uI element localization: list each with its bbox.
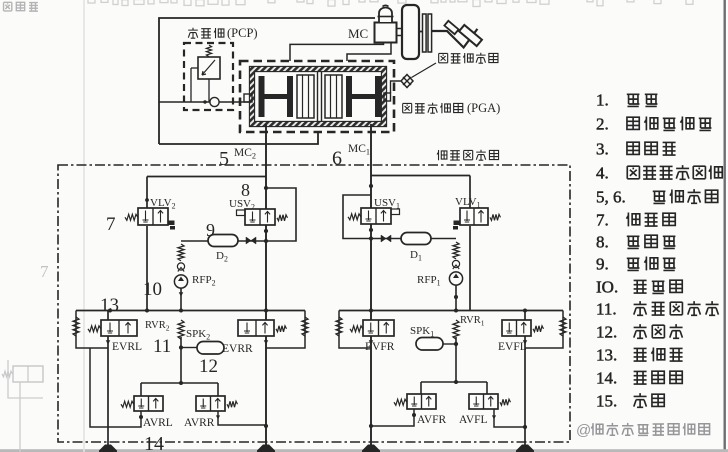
- svg-text:AVRR: AVRR: [184, 417, 215, 429]
- scan artifact: faint fold line: [83, 0, 85, 452]
- svg-text:15.: 15.: [596, 392, 617, 411]
- svg-text:13: 13: [100, 295, 119, 316]
- pedal plates: [423, 14, 427, 52]
- return check RVR2 on return line: [178, 320, 184, 339]
- hydraulic modulator enclosure (dash-dot): [58, 165, 570, 442]
- accumulator SPK1: [443, 343, 456, 345]
- wire: VLV1 to lower rail: [469, 226, 471, 311]
- PGA piston 1 (left): [259, 76, 265, 117]
- PGA chamber springs (left): [297, 75, 314, 118]
- pedal pad small: [444, 21, 458, 34]
- pedal pad: [459, 25, 482, 46]
- wire: damper line: [181, 240, 266, 242]
- svg-text:12: 12: [199, 356, 218, 377]
- svg-text:MC: MC: [348, 26, 368, 41]
- svg-text:10: 10: [143, 279, 162, 300]
- PGA chamber springs (right): [325, 75, 342, 118]
- svg-text:(PCP): (PCP): [227, 26, 258, 40]
- pressure increase valve EVFL: [524, 311, 526, 452]
- EVRL bypass loop with check spring: [76, 311, 108, 349]
- svg-text:AVRL: AVRL: [143, 417, 173, 429]
- EVFL bypass loop: [525, 311, 563, 349]
- PGA right outlet port: [384, 93, 391, 101]
- wheel cylinder RR (15, cut off): [257, 445, 275, 452]
- svg-text:AVFL: AVFL: [459, 414, 488, 426]
- wire: MC to PGA port A: [290, 43, 384, 62]
- svg-text:14: 14: [144, 433, 164, 452]
- suction valve VLV1: [453, 208, 501, 230]
- svg-text:AVFR: AVFR: [417, 414, 447, 426]
- wire: right lower rail: [339, 310, 563, 312]
- svg-text:1.: 1.: [596, 91, 609, 110]
- svg-text:6: 6: [332, 148, 342, 170]
- pressure increase valve EVRL: [107, 311, 109, 452]
- PGA left inlet port: [244, 94, 252, 102]
- pump RFP2: [174, 275, 187, 288]
- relief valve inside PCP: [198, 57, 220, 79]
- MC push rod: [397, 29, 403, 36]
- PGA piston 2 (right): [346, 76, 352, 117]
- svg-text:EVRR: EVRR: [222, 343, 253, 355]
- scan artifact: right page edge: [724, 0, 726, 452]
- MC reservoir cap: [379, 8, 392, 22]
- label: 压力生成器 (PGA): [403, 103, 412, 112]
- scan artifact: bottom page edge: [0, 449, 728, 452]
- wire: PCP internal loop: [191, 67, 198, 69]
- svg-text:9: 9: [206, 220, 215, 240]
- label: 压力传感器 with pointer: [412, 63, 437, 78]
- wheel cylinder FR (15, cut off): [362, 445, 380, 452]
- wire: AVFR drain: [371, 409, 414, 426]
- svg-text:EVFR: EVFR: [365, 341, 395, 353]
- svg-text:EVRL: EVRL: [112, 341, 142, 353]
- wire: outer unit box bottom: [159, 131, 318, 144]
- svg-text:(PGA): (PGA): [467, 101, 500, 115]
- pump circle PCP: [210, 97, 219, 106]
- pre-pressure pump PCP enclosure (dashed): [184, 43, 233, 110]
- svg-text:7: 7: [40, 262, 49, 281]
- wire: left top rail: [147, 176, 266, 178]
- wire: damper line right: [371, 238, 456, 240]
- EVFR bypass loop: [339, 311, 371, 349]
- wire: right top rail: [371, 175, 470, 177]
- scan artifact: ghost text top-left: [4, 2, 12, 11]
- wire: PCP suction line: [159, 101, 252, 103]
- pressure generator PGA enclosure (dashed): [240, 61, 394, 132]
- damper D2: [208, 235, 238, 247]
- wire: outer unit box top/left: [159, 18, 375, 144]
- wire: VLV2 to lower rail: [146, 226, 148, 311]
- svg-text:14.: 14.: [596, 369, 617, 388]
- svg-text:7: 7: [106, 214, 116, 235]
- svg-text:8.: 8.: [596, 233, 609, 252]
- svg-text:IO.: IO.: [596, 278, 618, 297]
- pressure sensor symbol: [391, 81, 401, 93]
- svg-text:2.: 2.: [596, 115, 609, 134]
- check valve (bowtie) on damper line: [246, 237, 256, 244]
- wire: USV2 bypass loop: [266, 188, 296, 241]
- wire: AV bracket right: [421, 381, 487, 383]
- pressure reduce valve AVFR: [394, 394, 436, 409]
- svg-text:11.: 11.: [596, 300, 617, 319]
- wire: AVRL drain: [90, 348, 141, 427]
- master cylinder MC body: [375, 23, 397, 43]
- svg-text:@: @: [576, 422, 591, 439]
- svg-text:4.: 4.: [596, 164, 609, 183]
- wire: VLV2 drop: [146, 177, 148, 209]
- svg-text:3.: 3.: [596, 140, 609, 159]
- pressure increase valve EVRR: [238, 320, 287, 336]
- svg-text:5, 6.: 5, 6.: [596, 188, 626, 207]
- pump RFP1: [449, 272, 462, 285]
- node MC1 main line: [370, 124, 372, 452]
- svg-text:8: 8: [241, 180, 250, 200]
- wire: AVFL drain: [494, 409, 525, 427]
- wire: VLV1 drop: [469, 176, 471, 209]
- wire: AV bracket left: [141, 382, 218, 384]
- return pump branch: spring + check + pump RFP2: [178, 244, 184, 261]
- wheel cylinder FL (15, cut off): [516, 445, 534, 452]
- wire: USV1 bypass loop: [343, 195, 371, 239]
- brake pedal arm: [432, 29, 478, 48]
- legend list: [596, 91, 722, 411]
- svg-text:9.: 9.: [596, 255, 609, 274]
- booster disc: [402, 5, 419, 59]
- scan artifact: clipped text row at top: [88, 0, 693, 7]
- damper D1: [401, 233, 431, 245]
- svg-text:5: 5: [219, 148, 229, 170]
- svg-text:11: 11: [153, 336, 171, 357]
- svg-text:7.: 7.: [596, 211, 609, 230]
- wire: MC to PGA port B: [347, 43, 391, 62]
- scan artifact: ghost valve bleed-through: [13, 366, 43, 382]
- suction valve VLV2: [125, 208, 175, 230]
- node MC2 main line: [265, 124, 267, 452]
- label: 液压调节器: [437, 150, 447, 160]
- return check RVR1: [453, 320, 459, 339]
- label: 预压泵 (PCP): [188, 28, 198, 38]
- wire: AVRR drain: [218, 411, 266, 425]
- wheel cylinder RL (15, cut off): [99, 445, 117, 452]
- wire: left lower rail: [76, 310, 305, 312]
- pressure reduce valve AVRL: [121, 396, 163, 411]
- EVRR bypass loop: [266, 311, 305, 349]
- pressure reduce valve AVFL: [469, 394, 511, 409]
- svg-text:12.: 12.: [596, 323, 617, 342]
- accumulator SPK2: [181, 347, 197, 349]
- PGA center divider: [317, 72, 319, 121]
- pressure increase valve EVFR: [350, 320, 394, 336]
- return pump branch right: spring + check + pump RFP1: [453, 242, 459, 259]
- svg-text:13.: 13.: [596, 346, 617, 365]
- svg-text:EVFL: EVFL: [498, 341, 527, 353]
- pressure reduce valve AVRR: [196, 396, 238, 411]
